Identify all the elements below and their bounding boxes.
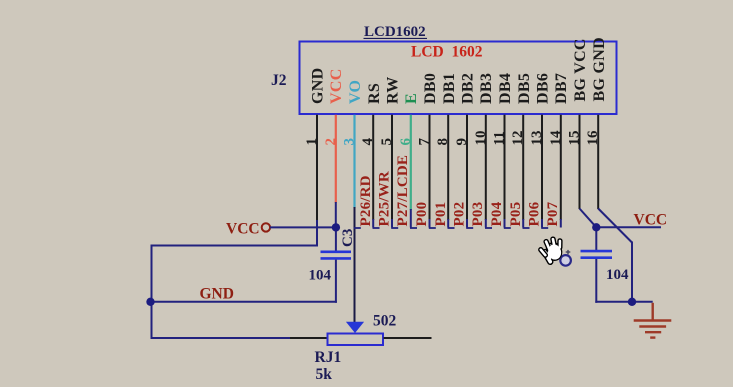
net label underline dash pin 14 (541, 227, 548, 229)
pin 7 stub wire (429, 115, 431, 220)
capacitor (right, 104) top plate (581, 250, 613, 253)
node: pin16/GND junction (628, 298, 636, 306)
pin 3 wire VO (teal segment) (353, 115, 355, 208)
net label underline dash pin 11 (485, 227, 492, 229)
wire VCC horizontal (right) (595, 226, 661, 228)
pin 14 stub wire (560, 115, 562, 220)
pin 16 stub wire BG GND (597, 115, 599, 209)
pin 3 wire VO down to wiper (354, 207, 356, 323)
wire diagonal pin16 toward ground (598, 209, 632, 243)
wire VCC node down to capacitor (595, 226, 597, 250)
svg-text:502: 502 (373, 313, 397, 330)
wire left rail vertical (151, 245, 153, 340)
potentiometer left lead (290, 337, 328, 339)
svg-text:DB1: DB1 (441, 73, 458, 104)
pin 5 wire end (navy) (391, 219, 393, 228)
reference label LCD1602 (364, 24, 428, 40)
svg-text:DB2: DB2 (460, 73, 477, 104)
svg-text:DB4: DB4 (497, 73, 514, 104)
svg-text:P00: P00 (414, 202, 430, 227)
potentiometer wiper arrow (346, 322, 364, 333)
capacitor C3 bottom plate (321, 257, 352, 260)
svg-text:GND: GND (200, 286, 234, 303)
svg-text:RJ1: RJ1 (315, 349, 342, 366)
net label underline dash pin 9 (448, 227, 455, 229)
svg-text:DB7: DB7 (553, 73, 570, 104)
pin 7 wire end (navy) (429, 219, 431, 228)
wire VCC node down to capacitor C3 (335, 226, 337, 250)
net label underline dash pin 8 (429, 227, 436, 229)
svg-text:P26/RD: P26/RD (358, 175, 374, 226)
pin 4 stub wire (372, 115, 374, 220)
svg-text:J2: J2 (271, 72, 287, 89)
svg-text:DB5: DB5 (516, 73, 533, 104)
svg-text:VCC: VCC (226, 221, 260, 238)
pin 13 stub wire (541, 115, 543, 220)
svg-text:DB3: DB3 (478, 73, 495, 104)
svg-text:C3: C3 (340, 229, 356, 247)
net label underline dash pin 6 (391, 227, 398, 229)
svg-text:DB6: DB6 (535, 73, 552, 104)
svg-text:VCC: VCC (634, 212, 668, 229)
pin 4 wire end (navy) (372, 219, 374, 228)
pin 15 stub wire BG VCC (579, 115, 581, 209)
pin 1 stub wire (black) (316, 115, 318, 221)
svg-text:P05: P05 (508, 202, 524, 227)
pin 14 wire end (navy) (560, 219, 562, 228)
svg-text:VCC: VCC (328, 68, 345, 104)
wire left rail bottom to potentiometer (151, 337, 292, 339)
net label underline dash pin 10 (466, 227, 473, 229)
svg-text:104: 104 (309, 268, 332, 284)
node: pin2/VCC junction (332, 223, 340, 231)
svg-text:P03: P03 (470, 202, 486, 227)
pin 11 wire end (navy) (504, 219, 506, 228)
svg-text:P27/LCDE: P27/LCDE (395, 155, 411, 227)
potentiometer RJ1 body (328, 334, 384, 346)
pin 5 stub wire (391, 115, 393, 220)
potentiometer right lead (384, 337, 432, 339)
svg-text:BG VCC: BG VCC (572, 38, 589, 101)
pin 11 stub wire (504, 115, 506, 220)
wire C3 bottom down to GND wire (335, 260, 337, 303)
net label underline dash pin 13 (523, 227, 530, 229)
pin 6 wire end (navy) (410, 209, 412, 228)
power terminal VCC (left) (262, 223, 270, 231)
pin 10 wire end (navy) (485, 219, 487, 228)
pin 8 wire end (navy) (447, 219, 449, 228)
pin 13 wire end (navy) (541, 219, 543, 228)
pin 9 wire end (navy) (466, 219, 468, 228)
svg-text:E: E (403, 93, 420, 104)
wire horizontal to left rail (151, 245, 319, 247)
svg-text:P04: P04 (489, 201, 505, 226)
pin 2 wire VCC (navy segment) (335, 202, 337, 227)
pin 2 wire VCC (red segment) (335, 115, 337, 203)
net label underline dash pin 4 (354, 227, 361, 229)
svg-text:BG GND: BG GND (591, 37, 608, 101)
svg-text:P07: P07 (545, 201, 561, 226)
svg-text:104: 104 (606, 267, 629, 283)
svg-text:DB0: DB0 (422, 73, 439, 104)
svg-text:GND: GND (310, 68, 327, 104)
node: GND rail junction (146, 298, 154, 306)
svg-text:LCD1602: LCD1602 (364, 24, 426, 40)
net label underline dash pin 5 (373, 227, 380, 229)
pin 6 wire E (green segment) (410, 115, 412, 210)
capacitor C3 top plate (321, 251, 352, 254)
node: right VCC junction (592, 223, 600, 231)
svg-text:P06: P06 (527, 201, 543, 226)
ground symbol (634, 303, 672, 338)
svg-text:P02: P02 (452, 202, 468, 227)
pin 12 stub wire (522, 115, 524, 220)
wire bottom horizontal to ground (595, 301, 652, 303)
wire pin1 to left rail (316, 220, 318, 247)
svg-text:5k: 5k (316, 366, 333, 383)
pin 9 stub wire (466, 115, 468, 220)
net label underline dash pin 7 (410, 227, 417, 229)
wire capacitor bottom down (595, 259, 597, 303)
cursor loupe circle (560, 250, 571, 266)
svg-text:P25/WR: P25/WR (377, 171, 393, 226)
net label underline dash pin 12 (504, 227, 511, 229)
wire GND horizontal (151, 301, 337, 303)
svg-text:RW: RW (385, 76, 402, 104)
wire pin16 vertical down (631, 242, 633, 303)
capacitor (right, 104) bottom plate (581, 256, 613, 259)
pin 10 stub wire (485, 115, 487, 220)
wire diagonal pin15 to VCC node (580, 209, 597, 228)
connector J2 body box (300, 42, 617, 115)
svg-text:LCD 1602: LCD 1602 (411, 44, 483, 61)
pin 8 stub wire (447, 115, 449, 220)
mouse cursor (hand) (536, 235, 567, 264)
svg-text:RS: RS (366, 83, 383, 104)
wire VCC terminal to node (270, 226, 337, 228)
pin 12 wire end (navy) (522, 219, 524, 228)
svg-text:VO: VO (347, 80, 364, 104)
svg-text:P01: P01 (433, 202, 449, 227)
